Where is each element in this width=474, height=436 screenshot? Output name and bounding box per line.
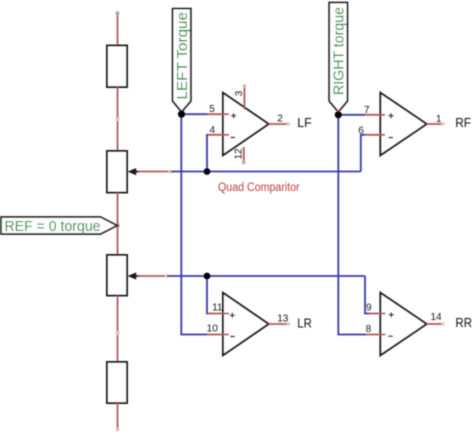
op-amp RR plus sign xyxy=(389,312,394,317)
node: junction dot pot2 net xyxy=(204,273,211,280)
wire: blue branch down to RR pin9 xyxy=(365,276,369,314)
node: junction dot pot1 net xyxy=(204,168,211,175)
wire: blue net pot1 wiper horizontal xyxy=(171,171,361,173)
wire: blue LEFT node vertical down xyxy=(181,114,208,334)
pin 14 stub xyxy=(427,323,442,325)
wire: RV1 wiper red lead xyxy=(138,171,169,173)
svg-text:REF = 0 torque: REF = 0 torque xyxy=(5,219,101,235)
op-amp RR minus sign xyxy=(388,335,392,337)
wire: rail bottom segment xyxy=(117,403,119,429)
svg-text:5: 5 xyxy=(209,104,215,115)
op-amp RF minus sign xyxy=(389,137,393,139)
op-amp LF plus sign xyxy=(231,113,236,118)
wire: blue branch up to RF pin6 xyxy=(361,135,366,172)
resistor R (top) xyxy=(107,46,127,88)
pin 6 stub xyxy=(365,134,385,136)
potentiometer RV1 body xyxy=(107,151,127,193)
svg-text:LR: LR xyxy=(297,315,312,330)
wire: blue branch up to LF pin4 xyxy=(207,135,208,172)
node: rail bottom end marker xyxy=(116,428,120,432)
pin 13 stub xyxy=(269,323,287,325)
svg-text:10: 10 xyxy=(207,324,219,335)
pin 3 stub xyxy=(243,87,245,110)
op-amp U1:A LF triangle xyxy=(223,93,269,155)
wire: blue branch down to LR pin11 xyxy=(207,276,208,314)
potentiometer RV1 wiper arrow xyxy=(128,168,137,175)
svg-text:LEFT Torque: LEFT Torque xyxy=(175,12,191,100)
pin 12 stub xyxy=(243,147,245,161)
pin 7 stub xyxy=(365,114,385,116)
pin 10 stub xyxy=(208,334,229,336)
svg-text:8: 8 xyxy=(366,324,372,335)
svg-text:3: 3 xyxy=(234,90,245,96)
op-amp LR plus sign xyxy=(230,313,235,318)
svg-text:Quad Comparitor: Quad Comparitor xyxy=(218,182,300,194)
op-amp U1:D RR triangle xyxy=(380,293,426,355)
node: wiper2 wire end marker xyxy=(165,274,168,277)
wire: blue RIGHT node to RF pin7 xyxy=(338,114,365,116)
svg-text:14: 14 xyxy=(430,312,442,323)
wire: RV2 wiper red lead xyxy=(138,275,165,277)
potentiometer RV2 wiper arrow xyxy=(128,272,137,279)
potentiometer RV2 body xyxy=(107,255,127,296)
node: rail top open end marker xyxy=(116,11,120,15)
wire: rail between pot2 and R bottom xyxy=(117,296,119,363)
svg-text:13: 13 xyxy=(277,313,289,324)
svg-text:RF: RF xyxy=(455,115,471,130)
pin 1 stub xyxy=(427,123,442,125)
pin 11 stub xyxy=(208,313,229,315)
wire: rail between pot1 and pot2 xyxy=(117,193,119,256)
node: RIGHT torque junction dot xyxy=(335,111,342,118)
svg-text:11: 11 xyxy=(212,302,223,313)
op-amp U1:C LR triangle xyxy=(223,293,269,355)
wire: blue LEFT node to LF pin5 xyxy=(182,113,208,115)
svg-text:2: 2 xyxy=(277,114,283,125)
svg-text:LF: LF xyxy=(297,115,312,130)
svg-text:6: 6 xyxy=(358,126,364,137)
svg-text:12: 12 xyxy=(234,148,245,160)
pin 2 stub xyxy=(269,123,287,125)
op-amp U1:B RF triangle xyxy=(380,93,426,155)
svg-text:1: 1 xyxy=(436,114,442,125)
node: wiper wire end marker xyxy=(168,170,171,173)
wire: left red rail top segment xyxy=(117,14,119,47)
pin 5 stub xyxy=(208,113,229,115)
resistor R (bottom) xyxy=(107,362,127,403)
flag LEFT Torque xyxy=(173,9,191,112)
wire: blue net pot2 wiper horizontal xyxy=(167,275,365,277)
pin 9 stub xyxy=(369,313,385,315)
wire: blue RIGHT node vertical down to RR pin8 xyxy=(338,115,366,335)
pin 8 stub xyxy=(366,334,385,336)
flag RIGHT torque xyxy=(329,3,347,112)
node: REF flag tip connection marker xyxy=(116,224,120,228)
svg-text:4: 4 xyxy=(209,125,215,136)
node: wire joint marker on rail xyxy=(116,117,120,121)
node: LEFT torque junction dot xyxy=(178,111,185,118)
op-amp RF plus sign xyxy=(388,113,393,118)
svg-text:7: 7 xyxy=(364,105,370,116)
flag REF = 0 torque xyxy=(1,217,117,234)
op-amp LR minus sign xyxy=(230,336,234,338)
svg-text:9: 9 xyxy=(366,303,372,314)
wire: rail between R top and pot1 xyxy=(117,87,119,151)
node: wire joint marker on rail lower xyxy=(116,331,120,335)
pin 4 stub xyxy=(208,134,229,136)
op-amp LF minus sign xyxy=(231,136,235,138)
svg-text:RIGHT torque: RIGHT torque xyxy=(332,7,348,95)
svg-text:RR: RR xyxy=(455,315,472,330)
